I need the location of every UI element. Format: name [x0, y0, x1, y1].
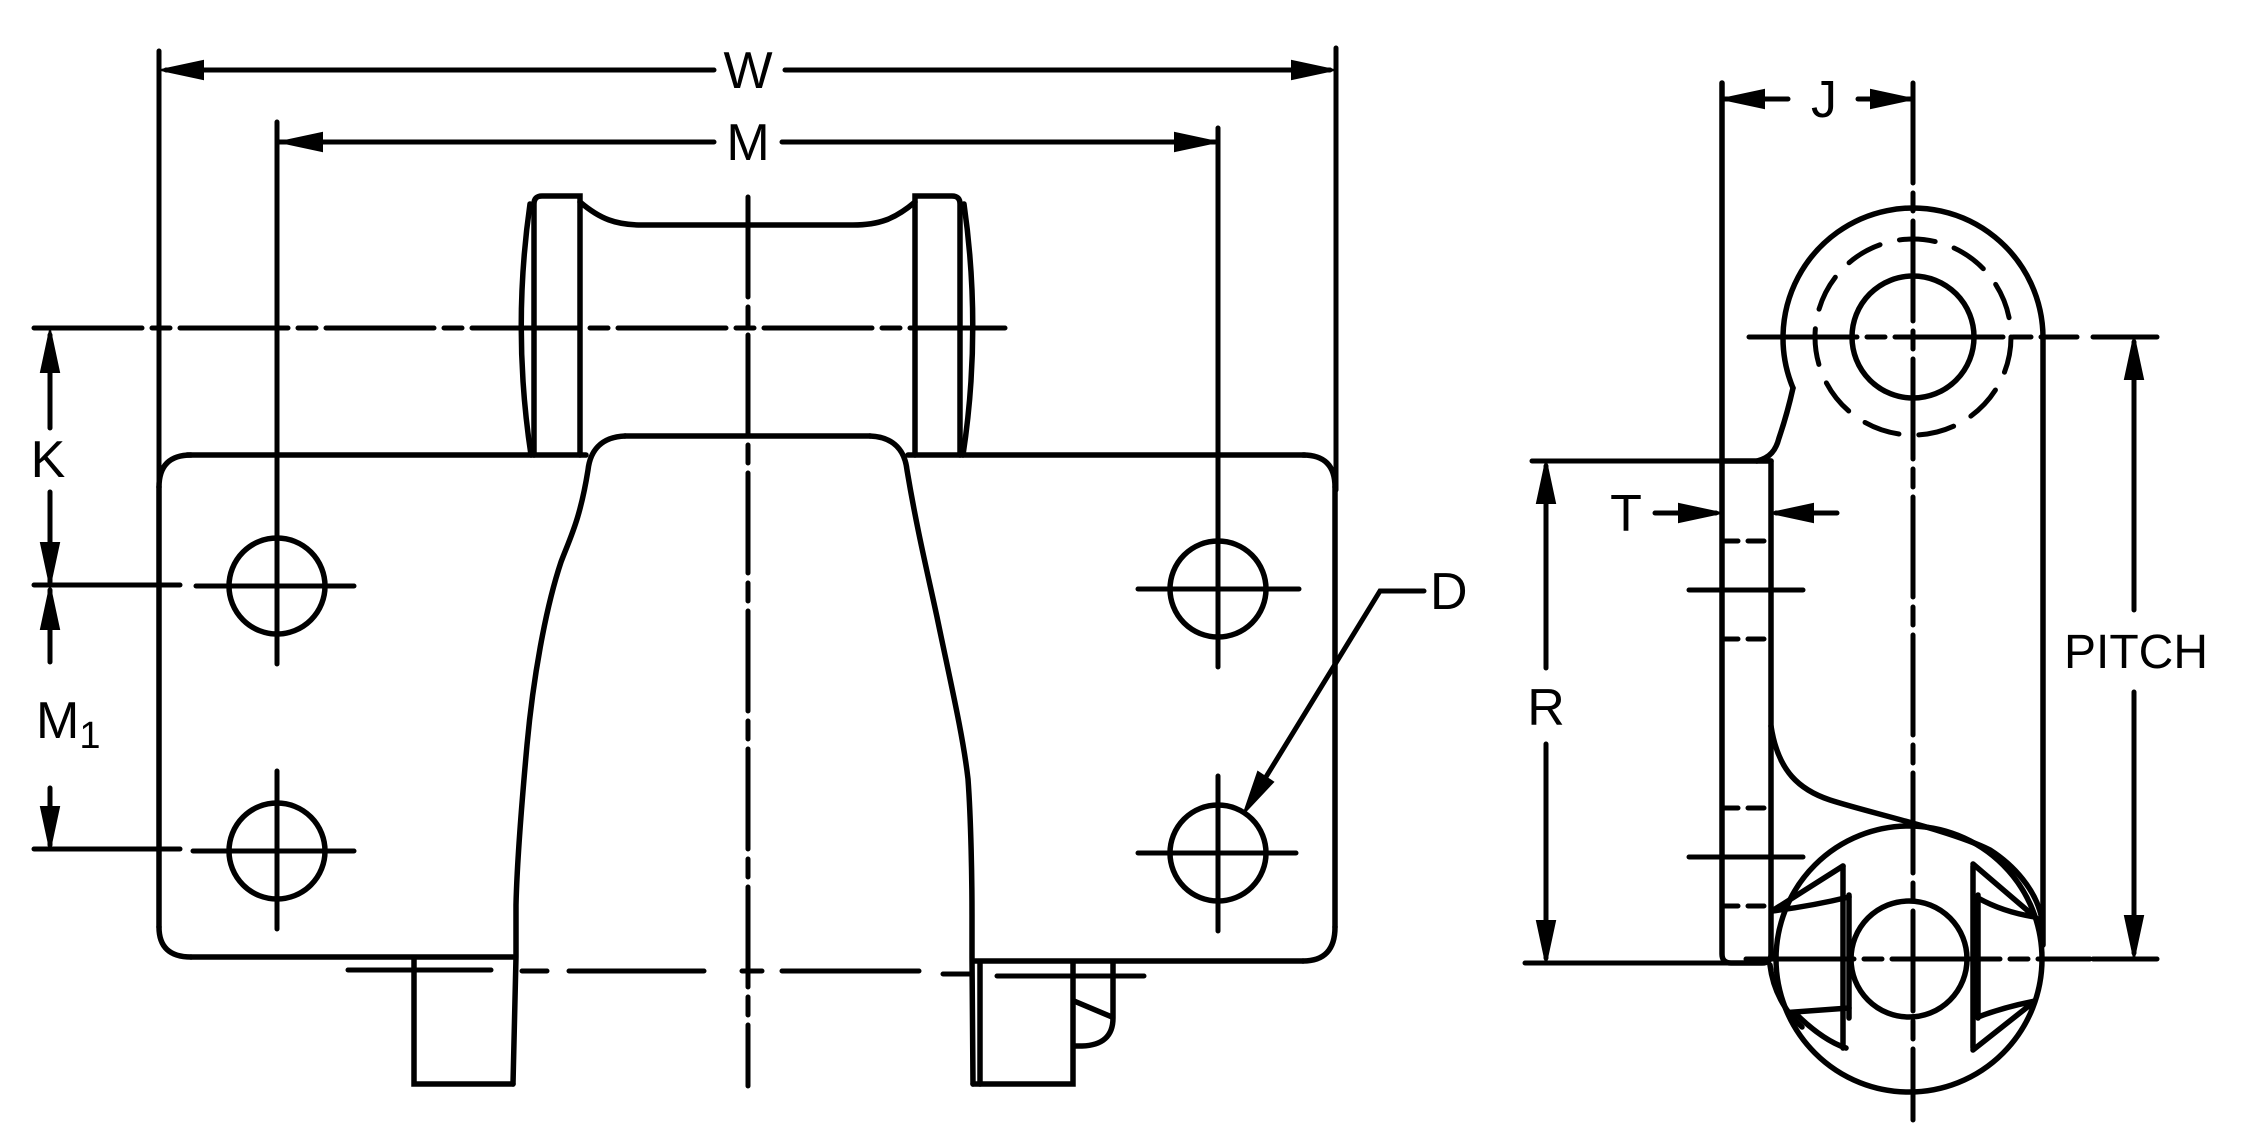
- svg-text:R: R: [1527, 679, 1565, 737]
- right foot tab: [973, 963, 1073, 1084]
- attachment plate outline: [159, 455, 1335, 961]
- roller flange right edges: [1973, 864, 2035, 1050]
- bushing dashed circle: [1815, 239, 2011, 435]
- right holes centerline: [1216, 128, 1221, 931]
- bottom hidden line left: [348, 968, 491, 973]
- tick upper hole line: [34, 583, 180, 588]
- pitch ext tick bottom: [2093, 957, 2157, 962]
- dimension R: [1525, 461, 1728, 963]
- right foot lug: [1074, 963, 1113, 1046]
- vertical centerline (front view): [746, 197, 751, 1086]
- svg-text:PITCH: PITCH: [2064, 626, 2208, 679]
- roller flange left edges: [1772, 866, 1849, 1048]
- roller outer circle (side): [1776, 826, 2042, 1092]
- tick lower hole line: [34, 847, 180, 852]
- pitch ext tick top: [2093, 335, 2157, 340]
- attachment plate side: [1722, 83, 1771, 963]
- pin crosshair horizontal: [1749, 335, 2077, 340]
- svg-text:W: W: [723, 42, 772, 100]
- dimension PITCH: [2125, 337, 2143, 958]
- svg-text:D: D: [1430, 563, 1468, 621]
- dimension M: [278, 133, 1217, 151]
- svg-text:K: K: [31, 431, 66, 489]
- bottom hidden line right: [943, 974, 1144, 976]
- svg-text:T: T: [1610, 485, 1642, 543]
- plate bottom to roller curve: [1770, 965, 1802, 1027]
- bottom hidden centerline: [522, 969, 919, 974]
- roller barrel top: [580, 202, 915, 225]
- hole upper-left: [196, 538, 354, 634]
- leader D: [1244, 591, 1424, 813]
- dimension M1: [41, 587, 59, 849]
- svg-text:J: J: [1811, 71, 1837, 129]
- roller pin circle (side): [1851, 901, 1967, 1017]
- dimension K: [41, 330, 59, 585]
- hole lower-right: [1138, 805, 1296, 901]
- svg-text:M1: M1: [36, 692, 100, 757]
- dimension W: [159, 48, 1336, 490]
- horizontal centerline (roller axis): [34, 326, 1005, 331]
- left holes centerline: [275, 122, 280, 929]
- tower gusset: [513, 436, 973, 1084]
- roller left flange: [521, 196, 580, 455]
- S curve link plate edge: [1771, 726, 2042, 940]
- hole lower-left: [193, 803, 354, 899]
- svg-text:M: M: [726, 114, 769, 172]
- vertical centerline (side view): [1911, 83, 1916, 1120]
- roller centerline horizontal: [1746, 957, 2090, 962]
- roller right flange: [915, 196, 973, 455]
- left foot tab: [414, 959, 513, 1084]
- hole upper-right: [1138, 541, 1299, 637]
- pin hole circle: [1852, 276, 1974, 398]
- dimension T: [1655, 504, 1837, 522]
- hidden hole lines (side): [1689, 541, 1803, 906]
- dimension J: [1722, 90, 1913, 108]
- link plate top circle outer: [1757, 208, 2043, 945]
